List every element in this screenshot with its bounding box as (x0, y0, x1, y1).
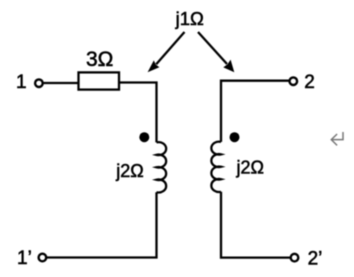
coupling arrow right (head) (223, 60, 234, 73)
coupling arrow right (shaft) (198, 32, 227, 64)
svg-text:3Ω: 3Ω (86, 48, 113, 71)
wire resistor to top-left corner and down to coil L1 (119, 83, 157, 143)
svg-text:j2Ω: j2Ω (236, 158, 264, 178)
wire coil L2 bottom to bottom rail (221, 192, 291, 258)
coupling arrow left (head) (148, 60, 160, 72)
svg-text:j2Ω: j2Ω (115, 161, 143, 181)
inductor L2 j2Ω (right coil) (211, 142, 221, 192)
polarity dot left (139, 132, 149, 142)
wire terminal1 to resistor (44, 82, 80, 84)
svg-text:j1Ω: j1Ω (175, 8, 204, 29)
line-break return mark (gray) (331, 132, 343, 145)
coupling arrow left (shaft) (156, 32, 184, 64)
terminal 2 (290, 77, 298, 85)
svg-text:1: 1 (16, 72, 27, 93)
terminal 1 (35, 79, 43, 87)
polarity dot right (230, 132, 240, 142)
svg-text:2’: 2’ (308, 248, 323, 269)
svg-text:1’: 1’ (17, 248, 32, 269)
terminal 1' (39, 254, 47, 262)
wire terminal 2 to top-right corner and down to coil L2 (221, 81, 290, 142)
wire coil L1 bottom to bottom rail (46, 192, 157, 257)
resistor R 3ohm (79, 72, 120, 89)
inductor L1 j2Ω (left coil) (157, 142, 167, 192)
svg-text:2: 2 (304, 72, 315, 93)
terminal 2' (291, 254, 299, 262)
